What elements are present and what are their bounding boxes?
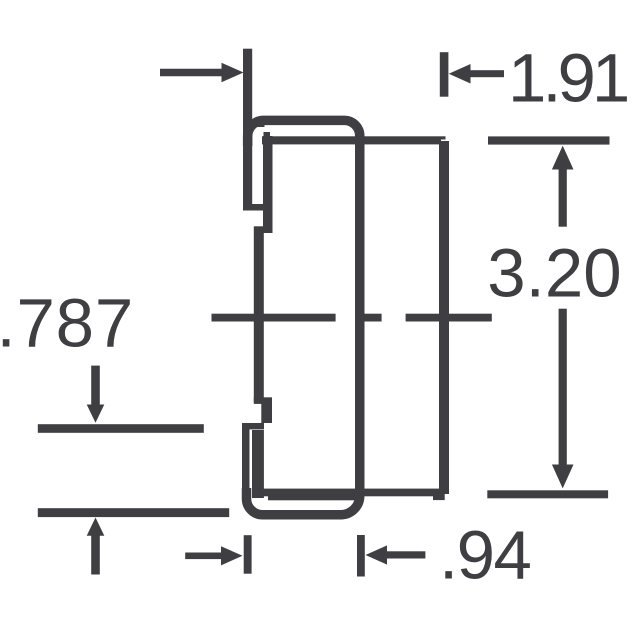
wire body left edge lower short [261,397,272,423]
wire step mid-low [254,397,272,404]
wire dim tick 3.20 bottom [487,490,608,498]
wire dim arrow .94 right shaft [185,553,227,560]
wire dim tick 3.20 top [488,136,610,144]
node centerline dash 2 [364,314,382,322]
wire dim arrow top-left shaft [160,69,224,77]
wire dim arrow 1.91 head [449,64,471,84]
wire dim tick .94 right [357,535,365,577]
svg-text:3.20: 3.20 [487,235,621,312]
wire dim tick .787 top [38,424,204,433]
wire dim tick .787 bottom [38,508,229,517]
wire dim arrow .94 left head [366,545,388,564]
wire body top edge [262,136,441,144]
wire mid left line [254,226,264,402]
wire body top edge left tab [264,132,271,137]
svg-text:1.91: 1.91 [508,40,627,117]
wire cover inner seam top-left [253,121,265,128]
wire dim arrow 1.91 shaft [462,70,504,77]
wire dim arrow .787 down shaft [91,366,100,408]
wire dim arrow .787 down head [87,405,105,423]
wire step above bottom flap [242,423,264,429]
wire extension line left (cover left edge + extension) [243,49,252,209]
wire body right edge [439,141,449,494]
node centerline dash 1 [212,314,336,322]
wire dim arrow top-left head [222,63,244,83]
wire dim tick .94 left [244,535,252,574]
wire dim arrow .787 up shaft [91,531,100,575]
svg-text:.94: .94 [439,517,531,594]
wire body bottom edge [263,489,445,497]
wire dim arrow 3.20 up shaft [559,160,567,227]
wire dim arrow 3.20 down head [552,465,574,489]
wire dim tick 1.91 [440,52,449,96]
wire body left edge upper [263,136,273,233]
node centerline dash 3 [406,314,492,322]
wire dim arrow 3.20 down shaft [559,309,567,475]
wire body bottom right tab [433,492,445,500]
wire dim arrow .787 up head [87,518,105,536]
wire step top-left [243,204,265,211]
wire dim arrow .94 right head [221,546,243,565]
svg-text:.787: .787 [0,285,134,362]
wire dim arrow 3.20 up head [552,146,574,170]
wire dim arrow .94 left shaft [380,551,425,558]
wire body top edge right tab [441,136,446,139]
wire cover bottom-left flap [242,427,250,499]
wire cover bottom lip [268,494,360,500]
wire cover C outline [247,120,360,514]
wire inner line bottom-left [252,430,264,498]
